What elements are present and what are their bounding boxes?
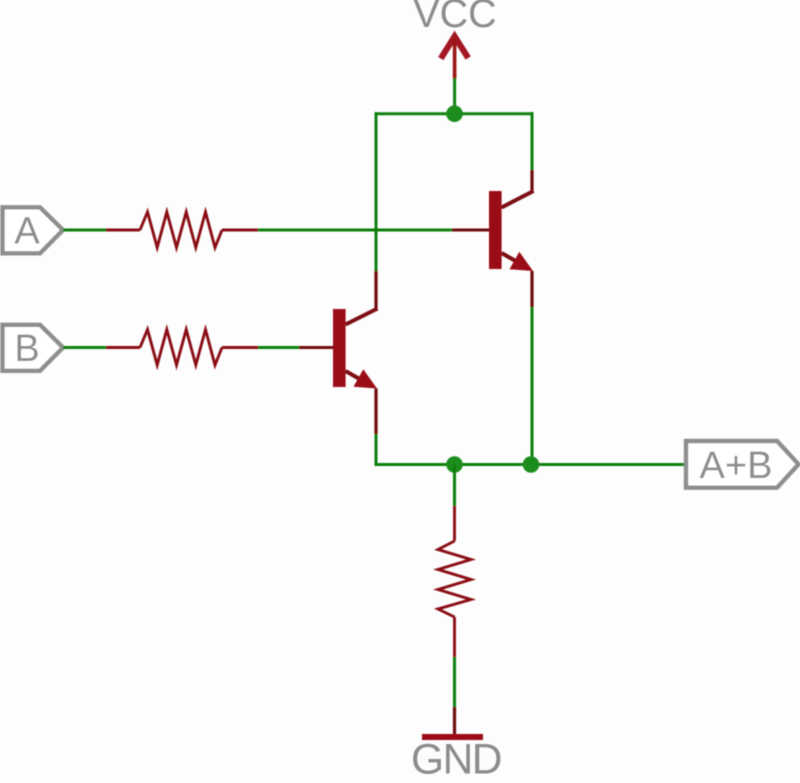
junction dot: Q2 emitter node [523,456,540,473]
Q2 emitter arrow [510,252,534,271]
resistor (pull-down to GND) [438,506,471,657]
VCC power symbol (red up arrow) [441,37,468,80]
wire: bottom rail (output net) [375,463,685,466]
resistor (input B) [106,330,258,366]
svg-text:A: A [14,211,40,253]
transistor Q1 (lower, input B) [299,271,378,434]
svg-text:GND: GND [411,737,501,779]
svg-text:B: B [14,328,39,370]
junction dot: GND resistor node [446,456,463,473]
Q2 emitter pin [530,271,533,307]
Q2 collector lead [502,191,534,208]
junction dot: VCC rail node [446,105,463,122]
wire: top rail [375,112,534,115]
Q2 base pin [452,228,489,231]
svg-text:VCC: VCC [413,0,496,36]
input flag A [3,207,64,253]
output flag A+B [686,441,799,488]
Q1 base bar [333,309,346,387]
svg-text:A+B: A+B [700,445,773,487]
wire: net A (flag to resistor) [63,229,106,232]
Q1 emitter arrow [354,369,378,388]
wire: right vertical (rail down to Q2 collector) [531,112,534,170]
wire: node down to GND resistor [453,465,456,507]
wire: net B (resistor to Q1 base) [258,346,299,349]
Q2 base bar [489,191,502,269]
Q1 emitter pin [374,389,377,435]
Q2 emitter lead [502,253,521,264]
wire: Q1 emitter down to bottom rail [375,434,378,466]
input flag B [3,325,64,371]
wire: left vertical (rail down to Q1 collector) [375,112,378,271]
resistor (input A) [106,212,258,248]
wire: Q2 emitter down to output node [531,307,534,466]
Q1 emitter lead [346,371,365,382]
Q1 base pin [299,346,333,349]
wire: net B (flag to resistor) [63,346,106,349]
wire: net A (resistor to Q2 base) [258,229,452,232]
transistor Q2 (upper, input A) [452,170,534,307]
Q2 collector pin [530,170,533,192]
wire: VCC stem (net to rail) [453,78,456,114]
ground symbol [422,707,483,740]
Q1 collector lead [346,309,378,325]
Q1 collector pin [374,271,377,310]
wire: resistor to GND symbol [453,657,456,707]
